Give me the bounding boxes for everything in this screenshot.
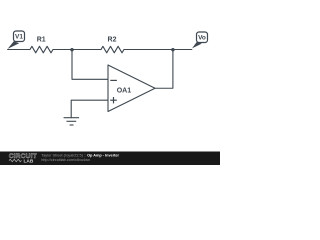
flag Vo <box>192 32 208 48</box>
wire noninverting input to ground <box>71 100 107 118</box>
wire node A to R2 <box>72 49 101 51</box>
svg-text:http://circuitlab.com/c6vu4wn: http://circuitlab.com/c6vu4wn <box>41 158 90 162</box>
node A junction dot <box>70 48 73 51</box>
svg-text:R2: R2 <box>108 37 117 44</box>
svg-text:V1: V1 <box>15 34 23 41</box>
wire op-amp output up to node B <box>155 50 173 89</box>
ground <box>64 118 80 125</box>
svg-text:LAB: LAB <box>24 158 34 164</box>
svg-text:OA1: OA1 <box>117 88 132 95</box>
wire R1 to node A <box>53 49 72 51</box>
flag V1 <box>8 31 25 49</box>
svg-text:Taylor Street (royal/22.5) ::: Taylor Street (royal/22.5) :: Op Amp - I… <box>41 153 119 157</box>
svg-text:Vo: Vo <box>198 35 206 42</box>
wire node A down to inverting input <box>72 50 108 80</box>
resistor R2 <box>101 46 124 53</box>
resistor R1 <box>30 46 53 53</box>
op-amp OA1 <box>108 65 155 112</box>
svg-text:R1: R1 <box>37 37 46 44</box>
op-amp plus sign <box>110 99 117 101</box>
op-amp minus sign <box>110 79 117 81</box>
footer bar <box>0 152 220 166</box>
CircuitLab logo <box>9 153 37 164</box>
node B junction dot <box>171 48 174 51</box>
wire node B to Vo <box>173 49 192 51</box>
wire R2 to node B <box>124 49 173 51</box>
wire V1 to R1 <box>8 49 30 51</box>
